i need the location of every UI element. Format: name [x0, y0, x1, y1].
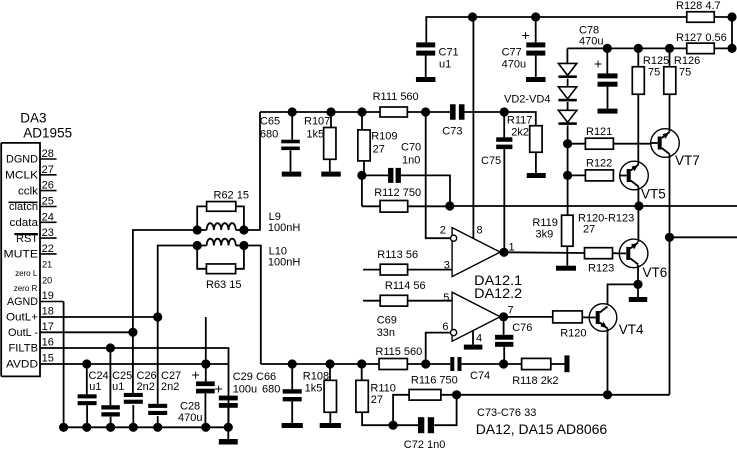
inductor L10	[197, 239, 300, 269]
resistor R112	[362, 187, 421, 212]
svg-text:2n2: 2n2	[137, 381, 155, 393]
label R120-R123 27	[578, 213, 634, 236]
resistor R111	[373, 91, 419, 117]
wire R116 left	[393, 395, 409, 425]
wire R109 to C70 node	[363, 161, 365, 176]
svg-text:21: 21	[42, 260, 52, 270]
capacitor C26	[124, 332, 157, 427]
wire R107 to ground	[329, 159, 331, 171]
transistor VT5	[620, 161, 666, 201]
svg-text:zero R: zero R	[14, 284, 38, 293]
svg-text:u1: u1	[89, 381, 101, 393]
wire output pin7	[500, 316, 510, 318]
svg-text:100nH: 100nH	[268, 222, 300, 234]
ground at C66	[282, 423, 303, 428]
resistor R126	[664, 44, 700, 94]
svg-text:OutL -: OutL -	[8, 327, 38, 339]
resistor R63	[197, 246, 241, 292]
svg-text:C73-C76 33: C73-C76 33	[477, 407, 536, 419]
wire L10 left from pin18	[158, 246, 198, 318]
svg-text:R119: R119	[532, 217, 557, 229]
svg-text:75: 75	[648, 67, 660, 79]
wire C76 to lower bus	[503, 347, 505, 364]
node pin17 / L9 / C26	[128, 328, 137, 337]
node R111 right / inverting tap	[421, 107, 430, 116]
svg-text:AGND: AGND	[7, 296, 38, 308]
resistor R128	[676, 0, 721, 22]
pin3 wire with resistor R113	[363, 249, 452, 275]
node C76 bottom	[499, 359, 508, 368]
svg-text:6: 6	[442, 321, 448, 333]
resistor R122	[568, 158, 614, 181]
pin 15 AVDD	[6, 353, 87, 371]
resistor R125	[632, 44, 669, 94]
svg-text:R122: R122	[586, 158, 612, 170]
svg-text:5: 5	[443, 292, 449, 304]
pin 16 FILTB	[9, 337, 111, 355]
svg-text:1k5: 1k5	[306, 129, 324, 141]
capacitor C70	[362, 142, 421, 183]
svg-text:470u: 470u	[178, 412, 202, 424]
svg-text:AD1955: AD1955	[23, 126, 72, 141]
ground at C71	[416, 77, 436, 82]
svg-text:+: +	[594, 56, 602, 72]
wire R119 to ground	[566, 246, 568, 266]
pin 19 AGND	[7, 290, 64, 308]
svg-text:VT4: VT4	[619, 322, 644, 337]
node pin8 supply tap	[468, 12, 477, 21]
svg-text:VT7: VT7	[675, 153, 700, 168]
node VT5 emitter on feedback rail	[634, 201, 643, 210]
wire R112 right to feedback node	[408, 205, 450, 207]
pin 26 cclk	[18, 180, 57, 198]
node output DA12.1	[499, 248, 508, 257]
wire pin8 supply	[472, 17, 474, 238]
pin 22 MUTE	[4, 243, 57, 261]
ground bar at R118 vertical	[564, 355, 569, 372]
wire VT5 emitter to rail	[637, 187, 639, 207]
wire C65 to ground	[290, 150, 292, 171]
svg-text:R110: R110	[370, 383, 395, 395]
wire top supply rail y=17	[426, 17, 687, 42]
svg-text:VT5: VT5	[641, 187, 666, 202]
svg-text:4: 4	[476, 333, 482, 345]
wire VT4 emitter down	[603, 329, 612, 400]
svg-text:C77: C77	[502, 47, 522, 59]
resistor R116	[409, 375, 458, 401]
svg-text:75: 75	[679, 67, 691, 79]
wire bias rail y=48	[567, 47, 687, 49]
wire	[567, 79, 569, 87]
wire R120 to VT4 base	[582, 316, 589, 318]
wire AVDD row to C29 vertical	[206, 363, 229, 365]
svg-text:15: 15	[42, 353, 54, 365]
wire R116 right	[441, 394, 457, 396]
svg-text:R125: R125	[643, 55, 669, 67]
svg-text:24: 24	[42, 211, 54, 223]
svg-text:R112 750: R112 750	[374, 187, 421, 199]
capacitor C66	[256, 359, 302, 401]
svg-text:26: 26	[42, 180, 54, 192]
svg-text:2k2: 2k2	[511, 127, 529, 139]
wire C74 to C76 node	[462, 363, 504, 365]
label C73-C76 33	[477, 407, 536, 419]
svg-text:680: 680	[260, 129, 278, 141]
svg-text:R107: R107	[304, 116, 330, 128]
wire R118 to ground bar	[551, 363, 565, 365]
node feedback at op-amp	[445, 201, 454, 210]
capacitor C24	[78, 364, 109, 427]
wire VT7 line down to bottom loop	[669, 237, 671, 394]
svg-text:22: 22	[42, 243, 54, 255]
svg-text:VD2-VD4: VD2-VD4	[504, 94, 550, 106]
capacitor C74	[450, 357, 490, 382]
svg-text:C29: C29	[233, 371, 253, 383]
wire FILTB row to C29 branch	[110, 348, 228, 396]
svg-text:17: 17	[42, 321, 54, 333]
svg-text:R128 4.7: R128 4.7	[676, 0, 721, 12]
wire feedback rail y=206 to right edge	[639, 205, 737, 207]
svg-text:R123: R123	[588, 263, 614, 275]
resistor R110	[356, 359, 396, 412]
node L10 right	[239, 241, 248, 250]
svg-text:3k9: 3k9	[536, 229, 554, 241]
wire bus to C73	[426, 111, 450, 113]
svg-text:DA12, DA15 AD8066: DA12, DA15 AD8066	[476, 421, 608, 437]
wire R110 to C72 node	[362, 412, 393, 425]
wire L10 right to lower bus	[244, 246, 261, 365]
resistor R115	[375, 346, 422, 370]
svg-text:DA3: DA3	[20, 111, 46, 126]
svg-text:27: 27	[371, 394, 383, 406]
svg-text:R114 56: R114 56	[385, 280, 426, 292]
svg-text:R109: R109	[371, 131, 397, 143]
wire upper bus y=112	[260, 111, 380, 113]
resistor R120	[553, 311, 587, 340]
wire bus to C74	[426, 363, 451, 365]
wire L9 right to upper bus	[244, 112, 260, 230]
svg-text:MCLK: MCLK	[5, 170, 39, 182]
wire output to R120	[504, 316, 553, 318]
node L9 left	[193, 225, 202, 234]
svg-text:cdata: cdata	[10, 217, 39, 229]
wire into diode chain	[566, 48, 568, 63]
svg-text:7: 7	[508, 305, 514, 317]
wire lower loop y=395	[457, 394, 670, 396]
pin 25 clatch	[8, 196, 56, 214]
svg-text:u1: u1	[112, 381, 124, 393]
wire to R117	[504, 112, 536, 126]
svg-text:R118 2k2: R118 2k2	[512, 375, 558, 387]
capacitor C29 polarized	[215, 371, 258, 427]
wire R111 right	[407, 111, 425, 113]
capacitor C71	[416, 42, 458, 77]
svg-text:MUTE: MUTE	[4, 249, 39, 261]
svg-text:2: 2	[440, 225, 446, 237]
ground at R119	[556, 266, 576, 271]
svg-text:1n0: 1n0	[402, 155, 420, 167]
resistor R109	[357, 107, 397, 160]
wire chain to R119	[567, 175, 569, 215]
resistor R62	[197, 190, 249, 231]
wire R108 to ground	[329, 412, 331, 423]
wire down to R112	[361, 175, 363, 206]
svg-text:33n: 33n	[377, 327, 395, 339]
wire C73 to C75 node	[464, 111, 504, 113]
wire output tap to right edge y=237	[670, 236, 737, 238]
svg-text:25: 25	[42, 196, 54, 208]
svg-text:27: 27	[42, 164, 54, 176]
wire C66 to ground	[291, 401, 293, 424]
svg-text:C70: C70	[401, 142, 421, 154]
ground bus bottom	[59, 423, 233, 432]
node pin16 / C25	[106, 343, 115, 352]
wire C75 to output node	[503, 149, 505, 252]
svg-text:+: +	[215, 381, 223, 397]
svg-text:19: 19	[42, 290, 54, 302]
wire to R118	[504, 363, 522, 365]
transistor VT4	[589, 304, 644, 337]
pin 20 zero R	[14, 275, 52, 293]
node L9 right	[239, 225, 248, 234]
transistor VT7	[651, 129, 700, 168]
node L10 left	[193, 241, 202, 250]
wire lower bus y=364	[261, 363, 379, 365]
capacitor C73	[442, 104, 464, 137]
ground at pin4	[464, 345, 483, 350]
node C28 top	[201, 359, 210, 368]
wire R126 to VT7	[669, 94, 671, 132]
wire AVDD row to C28 node	[87, 363, 206, 365]
svg-text:u1: u1	[439, 59, 451, 71]
capacitor C28 polarized	[178, 364, 215, 427]
resistor R121	[568, 126, 614, 149]
svg-text:R127 0.56: R127 0.56	[676, 32, 727, 44]
pin 21 zero L	[15, 260, 52, 279]
ground at C78	[598, 109, 618, 114]
capacitor C77	[502, 12, 546, 77]
IC DA3 AD1955 body	[1, 111, 72, 377]
diode VD2	[558, 63, 576, 78]
svg-text:C71: C71	[439, 47, 459, 59]
svg-text:AVDD: AVDD	[6, 359, 38, 371]
ground at C29	[219, 427, 238, 444]
wire VT7 emitter down	[665, 154, 674, 242]
pin 18 OutL+	[6, 306, 158, 324]
svg-text:R63 15: R63 15	[206, 279, 241, 291]
node pin6 tap	[421, 359, 430, 368]
ground at C77	[526, 77, 546, 82]
svg-text:R120: R120	[560, 328, 586, 340]
svg-text:R62 15: R62 15	[214, 190, 249, 202]
svg-text:100nH: 100nH	[268, 257, 300, 269]
node R110/C72/R116	[389, 421, 398, 430]
svg-text:C76: C76	[512, 322, 532, 334]
diode VD4	[504, 94, 577, 125]
node R109/C70/R112	[357, 171, 366, 180]
resistor R123	[585, 248, 615, 275]
capacitor C75	[481, 112, 512, 167]
node C75 top	[500, 107, 509, 116]
svg-text:R116 750: R116 750	[411, 375, 458, 387]
pin 23 RST	[14, 227, 56, 245]
wire R115 right	[407, 363, 425, 365]
wire bottom loop corner	[669, 394, 671, 396]
svg-text:C75: C75	[481, 155, 501, 167]
resistor R117	[507, 115, 542, 153]
wire R62 right	[236, 206, 244, 230]
svg-text:27: 27	[583, 224, 595, 236]
wire right node vertical	[731, 17, 733, 48]
svg-text:R108: R108	[303, 371, 329, 383]
svg-text:C74: C74	[470, 370, 490, 382]
capacitor C76	[495, 317, 532, 347]
svg-text:470u: 470u	[502, 59, 526, 71]
capacitor C72	[393, 417, 445, 449]
wire AGND to ground bus	[63, 302, 65, 428]
wire feedback rail to output stage	[450, 205, 639, 207]
ground at C65	[282, 172, 302, 177]
svg-text:zero L: zero L	[15, 269, 38, 278]
wire output to R123	[504, 251, 585, 254]
svg-text:20: 20	[42, 275, 52, 285]
label C69 33n	[377, 315, 397, 340]
wire C29 below	[227, 408, 229, 428]
svg-text:DGND: DGND	[6, 154, 38, 166]
svg-text:100u: 100u	[233, 384, 257, 396]
svg-text:R111 560: R111 560	[373, 91, 419, 103]
op-amp DA12.1	[440, 225, 522, 301]
svg-text:FILTB: FILTB	[9, 343, 39, 355]
wire pin2 from bus	[426, 112, 451, 238]
svg-text:VT6: VT6	[643, 265, 668, 280]
resistor R118	[512, 358, 558, 387]
resistor R127	[676, 32, 737, 54]
ground at VT6 emitter	[629, 284, 648, 302]
wire VT6 emitter down	[633, 265, 642, 289]
wire L9 left from pin17	[133, 230, 197, 332]
node output DA12.2	[499, 312, 508, 321]
wire R117 to ground	[535, 152, 537, 173]
svg-text:R115 560: R115 560	[375, 346, 422, 358]
svg-text:C65: C65	[260, 116, 280, 128]
svg-text:C28: C28	[180, 401, 200, 413]
wire R63 right	[236, 246, 244, 269]
capacitor C65	[260, 107, 300, 150]
svg-text:1k5: 1k5	[305, 383, 323, 395]
wire C70 right to feedback node	[401, 175, 450, 206]
wire	[567, 102, 569, 110]
svg-text:C73: C73	[442, 126, 462, 138]
wire R123 to VT6 base	[613, 252, 620, 254]
node pin15 / C24	[82, 359, 91, 368]
capacitor C27	[148, 317, 181, 427]
wire R121 to VT7 base	[613, 143, 650, 145]
svg-text:C69: C69	[377, 315, 397, 327]
transistor VT6	[619, 239, 667, 280]
svg-text:R113 56: R113 56	[377, 249, 418, 261]
node pin18 / L10 / C27	[153, 312, 162, 321]
svg-text:16: 16	[42, 337, 54, 349]
svg-text:R117: R117	[507, 115, 532, 127]
svg-text:27: 27	[373, 144, 385, 156]
wire C72 right up to R116 output row	[434, 395, 456, 425]
wire output pin1	[500, 251, 510, 253]
svg-text:R121: R121	[586, 126, 612, 138]
wire R128 to right node	[714, 12, 736, 21]
resistor R107	[304, 107, 336, 159]
svg-text:28: 28	[42, 148, 54, 160]
pin 28 DGND	[6, 148, 57, 166]
ground at R108	[320, 423, 341, 428]
op-amp DA12.2	[442, 292, 513, 345]
svg-text:DA12.2: DA12.2	[474, 286, 522, 301]
svg-text:C72 1n0: C72 1n0	[404, 439, 446, 449]
svg-text:2n2: 2n2	[161, 381, 179, 393]
wire diode chain to R121 node	[563, 125, 572, 148]
svg-text:cclk: cclk	[18, 185, 39, 197]
diode VD3	[558, 87, 576, 102]
wire VT6 emitter to VT4 collector	[608, 284, 639, 304]
wire pin6 from lower bus	[426, 333, 451, 364]
wire VT6 collector	[637, 206, 639, 242]
svg-text:470u: 470u	[579, 36, 603, 48]
svg-text:+: +	[522, 27, 530, 43]
wire pin4 ground	[472, 331, 474, 345]
pin 24 cdata	[10, 211, 57, 229]
label DA12 DA15 AD8066	[476, 421, 608, 437]
capacitor C78	[579, 25, 618, 109]
node R116/C72 join	[452, 390, 461, 399]
ground at R107	[321, 172, 341, 177]
svg-text:OutL+: OutL+	[6, 312, 38, 324]
capacitor C25	[101, 348, 132, 427]
svg-text:23: 23	[42, 227, 54, 239]
svg-text:18: 18	[42, 306, 54, 318]
wire to R122 node	[563, 144, 572, 180]
svg-text:+: +	[192, 367, 200, 383]
svg-text:R126: R126	[674, 55, 700, 67]
pin5 wire with resistor R114	[363, 280, 452, 306]
resistor R108	[303, 359, 337, 412]
svg-text:680: 680	[262, 384, 280, 396]
wire R125 to VT5 collector	[637, 94, 639, 164]
pin 17 OutL-	[8, 321, 133, 339]
wire C28 branch stub	[205, 317, 207, 364]
pin 27 MCLK	[5, 164, 57, 182]
svg-text:C66: C66	[256, 371, 276, 383]
resistor R119	[532, 215, 573, 246]
ground at R117	[527, 173, 546, 178]
svg-text:8: 8	[477, 225, 483, 237]
inductor L9	[197, 211, 300, 234]
